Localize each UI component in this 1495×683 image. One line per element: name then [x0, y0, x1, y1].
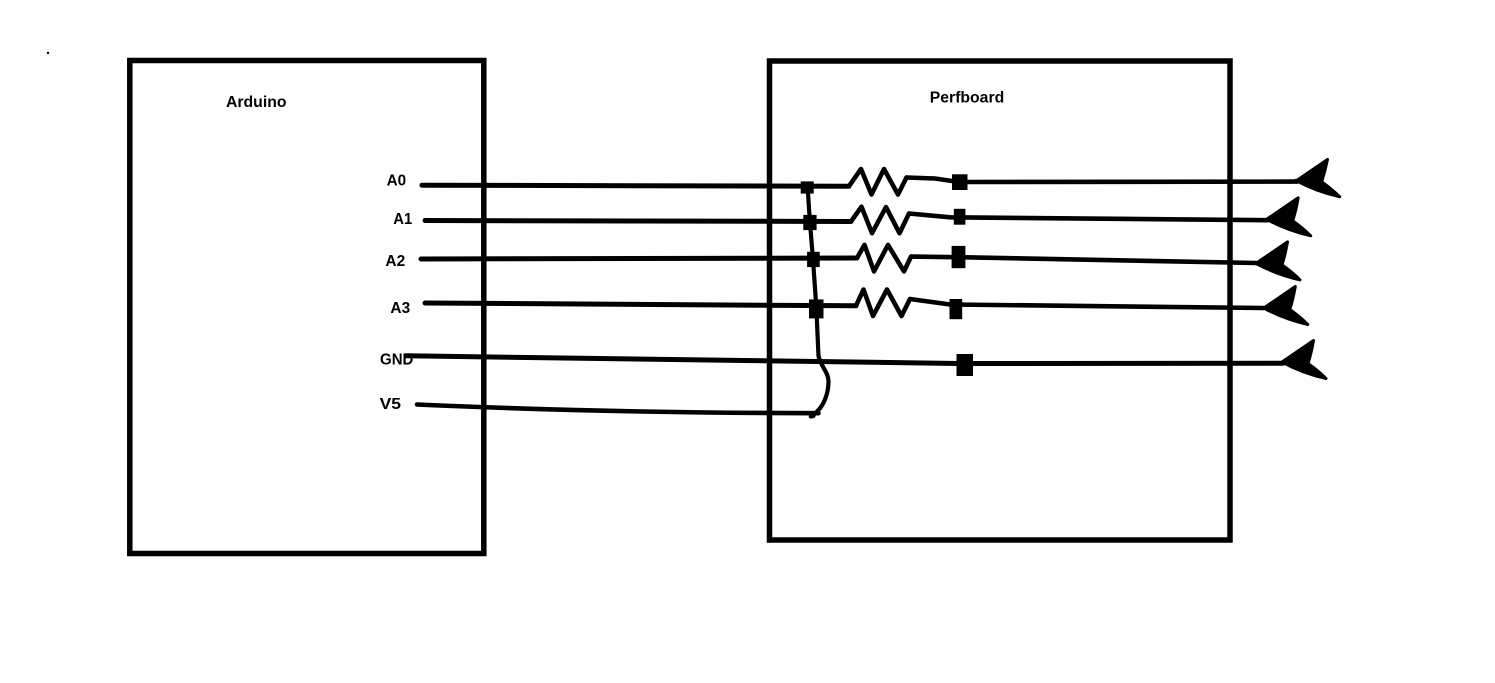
resistor R1 [849, 169, 907, 195]
junction pad A1 bus [803, 215, 816, 230]
wire GND (Arduino GND to arrow) [406, 356, 1283, 364]
wire A3 left (Arduino A3 to resistor R4) [425, 303, 856, 306]
wire A1 right (R2 to arrow) [909, 214, 1268, 221]
svg-text:Perfboard: Perfboard [930, 90, 1004, 107]
arrow GND [1282, 341, 1326, 379]
solder pad A2 [952, 246, 966, 268]
svg-text:Arduino: Arduino [226, 94, 287, 111]
arrow A1 [1267, 198, 1311, 236]
svg-text:A1: A1 [393, 211, 412, 228]
junction pad A0 bus [801, 181, 814, 193]
junction pad A3 bus [809, 299, 824, 318]
junction pad A2 bus [807, 252, 820, 267]
svg-text:A2: A2 [385, 253, 405, 270]
wire A3 right (R4 to arrow) [910, 299, 1264, 308]
resistor R2 [851, 207, 909, 234]
block Perfboard [770, 61, 1231, 540]
svg-text:V5: V5 [380, 396, 402, 413]
solder pad A3 [950, 299, 963, 319]
wire A0 left (Arduino A0 to resistor R1) [422, 185, 849, 186]
arrow A0 [1296, 160, 1340, 197]
wire A1 left (Arduino A1 to resistor R2) [425, 221, 851, 222]
bus wire (vertical tie from A0 junction down past A3, curving to V5) [808, 186, 829, 417]
arrow A3 [1264, 287, 1308, 325]
junction dot V5/bus [809, 412, 816, 419]
resistor R4 [856, 290, 910, 317]
solder pad A0 [952, 174, 968, 190]
wire A0 right (R1 to arrow) [907, 178, 1298, 183]
resistor R3 [857, 245, 911, 272]
wire A2 right (R3 to arrow) [911, 257, 1256, 263]
solder pad A1 [954, 209, 966, 225]
solder pad GND [957, 354, 974, 376]
svg-text:A3: A3 [390, 300, 410, 317]
wire V5 (Arduino V5 to bus) [417, 405, 819, 414]
svg-text:A0: A0 [387, 173, 407, 190]
wire A2 left (Arduino A2 to resistor R3) [421, 258, 857, 259]
block Arduino [130, 61, 484, 554]
stray dot [47, 52, 49, 54]
arrow A2 [1256, 242, 1300, 280]
